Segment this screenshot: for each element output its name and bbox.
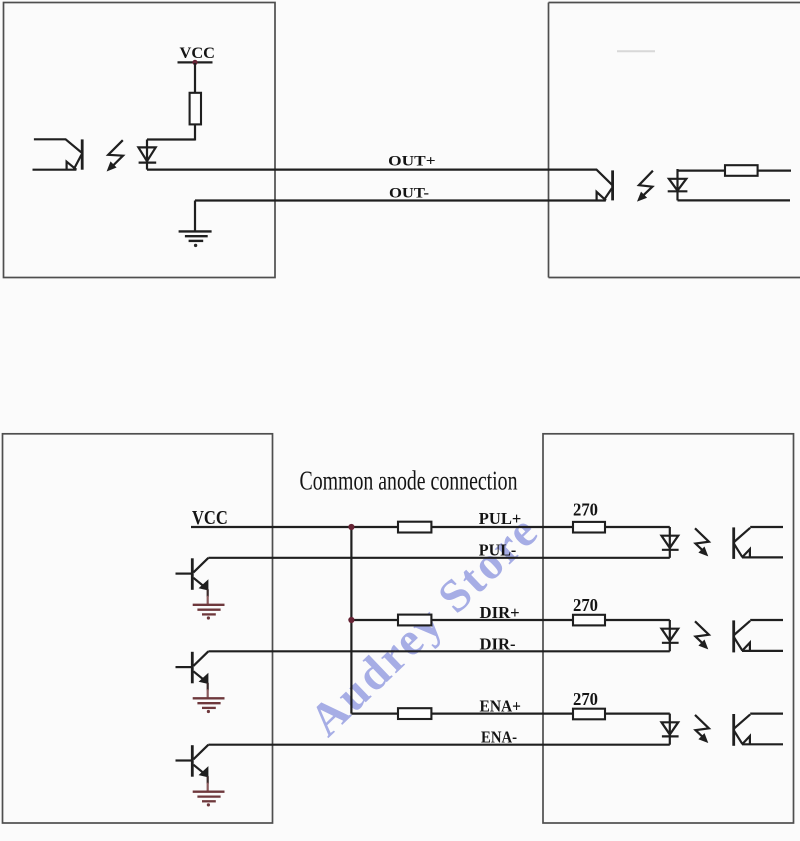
- svg-text:270: 270: [573, 689, 598, 709]
- svg-text:DIR+: DIR+: [480, 603, 520, 622]
- svg-text:PUL-: PUL-: [479, 541, 517, 560]
- svg-text:ENA-: ENA-: [481, 728, 517, 747]
- svg-text:Common anode connection: Common anode connection: [300, 465, 518, 495]
- svg-text:ENA+: ENA+: [480, 697, 522, 716]
- svg-text:OUT+: OUT+: [388, 154, 435, 170]
- svg-text:PUL+: PUL+: [479, 509, 522, 528]
- svg-text:VCC: VCC: [180, 45, 216, 62]
- svg-text:270: 270: [573, 595, 598, 615]
- svg-text:270: 270: [573, 500, 598, 520]
- svg-text:OUT-: OUT-: [389, 186, 429, 202]
- svg-text:VCC: VCC: [192, 507, 228, 529]
- svg-text:DIR-: DIR-: [480, 634, 516, 653]
